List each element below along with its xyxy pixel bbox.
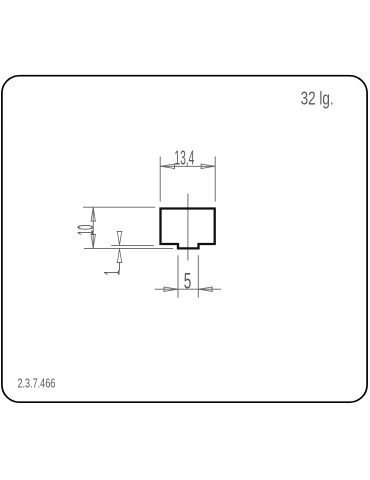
svg-text:1: 1 bbox=[100, 270, 125, 275]
dimension 5 : value text bbox=[184, 268, 192, 293]
dimension 1 (tab depth) : upper extension line bbox=[111, 244, 154, 246]
dimension 5 : right extension line bbox=[197, 255, 199, 297]
svg-text:2.3.7.466: 2.3.7.466 bbox=[18, 377, 56, 391]
svg-text:32 lg.: 32 lg. bbox=[301, 88, 334, 109]
dimension 1 : lower arrowhead (pointing up) bbox=[117, 249, 121, 263]
dimension 10 : dimension line bbox=[92, 207, 94, 248]
profile outline: rectangle with bottom center tab bbox=[161, 209, 215, 249]
svg-text:13,4: 13,4 bbox=[174, 147, 194, 170]
dimension 10 : value text (rotated) bbox=[73, 225, 98, 236]
dimension 5 : dimension line bbox=[155, 288, 221, 290]
dimension 10 : bottom extension line (shared with tab depth dim) bbox=[84, 247, 173, 249]
dimension 13,4 : dimension line bbox=[161, 165, 215, 167]
dimension 13,4 : left arrowhead bbox=[161, 164, 175, 168]
dimension 1 : upper arrowhead (pointing down) bbox=[117, 231, 121, 245]
dimension 13,4 : right extension line bbox=[214, 157, 216, 202]
svg-text:10: 10 bbox=[73, 225, 98, 236]
dimension 13,4 : value text bbox=[174, 147, 194, 170]
dimension 1 : lower tail line bbox=[119, 263, 121, 271]
center line (vertical axis of profile) bbox=[187, 194, 189, 261]
label: length note "32 lg." bbox=[301, 88, 334, 109]
dimension 10 : top extension line bbox=[83, 206, 155, 208]
dimension 5 (tab width) : left extension line bbox=[177, 255, 179, 297]
dimension 5 : left arrowhead (outside, pointing right) bbox=[164, 287, 178, 291]
drawing sheet frame bbox=[2, 76, 367, 403]
dimension 13,4 : right arrowhead bbox=[201, 164, 215, 168]
dimension 13,4 : left extension line bbox=[159, 157, 161, 202]
dimension 10 : bottom arrowhead bbox=[91, 235, 95, 249]
svg-text:5: 5 bbox=[184, 268, 192, 293]
dimension 1 : value text (rotated) bbox=[100, 270, 125, 275]
dimension 10 : top arrowhead bbox=[91, 208, 95, 222]
label: part number 2.3.7.466 bbox=[18, 377, 56, 391]
dimension 5 : right arrowhead (outside, pointing left) bbox=[199, 287, 213, 291]
